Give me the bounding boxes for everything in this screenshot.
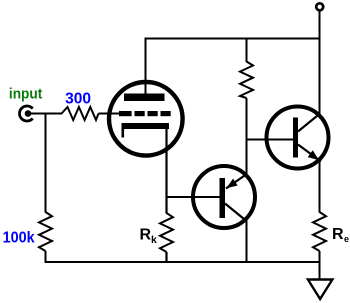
wire Re to ground bus	[319, 251, 321, 262]
wire bus to ground symbol	[319, 262, 321, 280]
resistor Rk label	[140, 226, 158, 246]
triode V1 cathode	[122, 123, 170, 138]
resistor 300	[62, 107, 99, 120]
resistor Re label	[332, 226, 349, 244]
triode V1 envelope	[109, 82, 183, 156]
svg-text:R: R	[332, 226, 344, 243]
wire 100k to ground bus	[45, 251, 47, 262]
transistor Q1 collector	[225, 204, 247, 222]
transistor Q1 base bar	[220, 178, 226, 218]
top rail wire	[145, 38, 321, 40]
wire Q1 collector to ground bus	[246, 221, 248, 263]
resistor 100k	[39, 212, 52, 251]
wire node to Q2 base	[247, 139, 294, 141]
wire Rk to ground bus	[165, 252, 167, 262]
wire R1 to Q1 emitter node	[246, 98, 248, 175]
transistor Q2 envelope	[267, 107, 329, 169]
ground	[308, 280, 333, 300]
wire top rail to R1	[246, 39, 248, 63]
triode V1 grid	[119, 111, 171, 116]
wire R300 to grid	[99, 113, 121, 115]
transistor Q2 base bar	[293, 118, 298, 158]
resistor 100k value label	[3, 229, 35, 246]
svg-text:R: R	[140, 226, 152, 243]
wire cathode node to Q1 base	[166, 196, 221, 198]
svg-text:e: e	[344, 234, 349, 244]
svg-text:input: input	[9, 86, 42, 103]
transistor Q1 envelope	[193, 166, 255, 228]
ground bus wire	[45, 261, 320, 263]
transistor Q2 collector	[298, 114, 320, 132]
wire input tee down to 100k	[45, 114, 47, 213]
transistor Q2 emitter (arrow away, NPN)	[298, 145, 321, 162]
wire cathode node down to Rk	[165, 197, 167, 214]
node input: label	[9, 86, 42, 103]
transistor Q1 emitter (arrow to base, PNP)	[226, 175, 246, 189]
terminal B+	[316, 3, 323, 10]
svg-text:300: 300	[65, 90, 91, 107]
input connector jack	[20, 106, 33, 121]
wire input to R300	[30, 113, 62, 115]
wire plate lead	[145, 39, 147, 96]
wire cathode lead down	[165, 129, 167, 198]
resistor 300 value label	[65, 90, 91, 107]
svg-text:k: k	[151, 234, 157, 246]
resistor Re	[313, 212, 326, 251]
resistor Rk	[160, 213, 173, 252]
wire Q2 emitter to Re	[319, 161, 321, 213]
svg-text:100k: 100k	[3, 229, 35, 246]
resistor R1 (plate load)	[240, 62, 253, 99]
wire terminal to rail and Q2 collector	[319, 10, 321, 115]
triode V1 plate	[124, 94, 165, 102]
